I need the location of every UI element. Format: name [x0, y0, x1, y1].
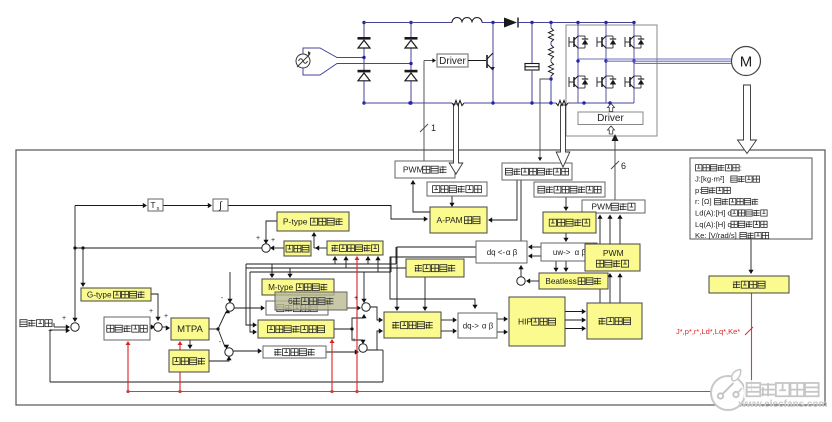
svg-text:Driver: Driver [439, 56, 466, 67]
svg-text:G-type: G-type [87, 290, 112, 299]
svg-text:J*,p*,r*,Ld*,Lq*,Ke*: J*,p*,r*,Ld*,Lq*,Ke* [676, 327, 740, 336]
svg-text:uw->: uw-> [553, 248, 571, 257]
svg-text:Driver: Driver [597, 113, 624, 124]
svg-text:α β: α β [482, 321, 494, 330]
svg-text::: : [740, 163, 742, 172]
svg-text:dq <-: dq <- [487, 248, 506, 257]
svg-text:www.elecfans.com: www.elecfans.com [737, 399, 827, 410]
svg-text:J:[kg·m²]: J:[kg·m²] [695, 175, 725, 184]
svg-text:+: + [48, 328, 52, 335]
svg-text:+: + [256, 235, 260, 242]
svg-text:Lq(A):[H] q: Lq(A):[H] q [695, 220, 732, 229]
svg-text:+: + [354, 295, 358, 302]
svg-text:Ke: [V/rad/s]: Ke: [V/rad/s] [695, 231, 737, 240]
svg-text:PWM: PWM [603, 248, 624, 258]
svg-text:M-type: M-type [268, 283, 293, 292]
svg-text:6: 6 [288, 296, 293, 306]
svg-text:r: [Ω]: r: [Ω] [695, 197, 712, 206]
svg-text:+: + [271, 237, 275, 244]
svg-text:+: + [352, 337, 356, 344]
svg-text:T: T [150, 200, 155, 210]
svg-text:M: M [740, 54, 753, 71]
svg-text:A-PAM: A-PAM [436, 215, 462, 225]
svg-text:+: + [149, 308, 153, 315]
svg-text:PWM: PWM [403, 165, 424, 175]
svg-text:p:: p: [695, 186, 701, 195]
svg-text:dq->: dq-> [463, 321, 480, 330]
svg-text:HIP: HIP [518, 317, 533, 327]
svg-text:α β: α β [506, 248, 518, 257]
svg-text:+: + [164, 313, 168, 320]
svg-text:P-type: P-type [283, 217, 308, 227]
svg-text:MTPA: MTPA [177, 324, 203, 335]
svg-text:Beatless: Beatless [545, 277, 576, 286]
svg-text:s: s [157, 206, 160, 212]
svg-text:Ld(A):[H] d: Ld(A):[H] d [695, 209, 732, 218]
svg-text:PWM: PWM [591, 202, 612, 212]
svg-text:6: 6 [621, 161, 626, 171]
svg-text:1: 1 [431, 123, 436, 133]
svg-text:+: + [62, 315, 66, 322]
